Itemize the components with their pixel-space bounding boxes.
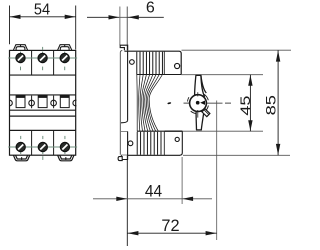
dimension 6 line right tail <box>128 16 164 18</box>
side view rail recess hook <box>121 120 128 122</box>
green tick below top screw pole3 <box>64 67 66 71</box>
side view flange hole bottom <box>128 141 133 146</box>
terminal row bottom line <box>10 74 76 76</box>
dimension 54 extension line left <box>9 6 11 45</box>
side view body bottom edge <box>121 154 180 156</box>
green centerline top screws <box>8 57 77 59</box>
terminal screw bottom pole2 <box>38 142 47 151</box>
svg-text:72: 72 <box>161 216 179 235</box>
dimension 45 line <box>249 75 251 132</box>
dimension 54 arrow left <box>10 15 21 19</box>
dimension 6 arrow left <box>109 15 120 19</box>
green tick below top screw pole1 <box>20 67 22 71</box>
faceplate band line <box>10 115 76 117</box>
side view bottom block top edge <box>164 130 182 132</box>
dimension 85 arrow bottom <box>276 144 280 155</box>
side view body back line upper <box>127 50 129 120</box>
front view bottom tab pole1 <box>14 155 30 160</box>
module separator top right <box>53 50 55 75</box>
side view ledge line lower <box>137 130 164 132</box>
side view flange left edge <box>120 51 122 155</box>
green tick below bottom screw pole3 <box>64 152 66 154</box>
dimension 6 line left tail <box>87 16 119 18</box>
green tick above top screw pole2 <box>42 52 44 54</box>
front view top mounting tab pole3 <box>58 45 72 51</box>
handle tie pin boundary1 <box>29 100 35 106</box>
side view flange hole top <box>130 60 135 65</box>
toggle top blade right edge curve <box>201 75 206 93</box>
dimension 85 top extension <box>182 49 292 51</box>
module separator bottom left <box>31 130 33 155</box>
terminal screw top pole2 <box>38 53 47 62</box>
terminal screw bottom pole3 <box>60 142 69 151</box>
toggle vertical centerline <box>197 92 199 96</box>
green tick below bottom screw pole1 <box>20 152 22 154</box>
bottom section top line <box>10 129 76 131</box>
side view rivet bottom <box>175 137 179 141</box>
dimension 44 line <box>93 198 212 200</box>
module separator top left <box>31 50 33 75</box>
toggle row bottom line <box>10 109 76 111</box>
handle tie pin right edge <box>73 100 79 106</box>
svg-text:6: 6 <box>146 0 155 17</box>
dimension 6 line middle <box>119 16 128 18</box>
green tick above bottom screw pole3 <box>64 136 66 139</box>
dimension 45 arrow top <box>248 75 252 86</box>
dimension 44 arrow right outside <box>182 197 193 201</box>
dimension 54 arrow right <box>65 15 76 19</box>
front view body outline <box>10 50 76 155</box>
side view rivet top <box>175 63 180 68</box>
dimension 54 line <box>10 16 76 18</box>
toggle handle pole2 <box>38 96 47 108</box>
toggle slot wedge <box>200 101 205 105</box>
side view ledge line upper <box>137 74 181 76</box>
toggle center dot <box>196 101 200 105</box>
toggle bottom blade <box>196 111 204 130</box>
toggle handle pole3 <box>60 96 69 108</box>
green tick above top screw pole3 <box>64 52 66 54</box>
dimension 72 line <box>127 232 216 234</box>
side view front block left edge bottom <box>163 131 165 155</box>
dimension 44 arrow left outside <box>116 197 127 201</box>
toggle rotation dashed arc <box>204 94 208 100</box>
side view bottom clip tab <box>118 157 122 161</box>
side view bottom block right edge <box>180 131 182 155</box>
side view bottom clip body <box>121 155 127 159</box>
handle tie pin left edge <box>7 100 13 106</box>
handle tie pin boundary2 <box>51 100 57 106</box>
dimension 45 bottom extension <box>182 130 263 132</box>
dimension 6 extension right <box>126 7 128 51</box>
terminal screw top pole3 <box>60 53 69 62</box>
dimension 54 extension line right <box>75 6 77 50</box>
terminal screw bottom pole1 <box>16 142 25 151</box>
dimension 85 bottom extension <box>183 154 290 156</box>
green centerline bottom screws <box>8 146 77 148</box>
side view rail notch bottom step <box>121 130 128 132</box>
terminal screw top pole1 <box>16 53 25 62</box>
green tick below bottom screw pole2 <box>42 152 44 154</box>
dimension 6 extension left <box>119 7 121 46</box>
green tick above top screw pole1 <box>20 52 22 54</box>
svg-text:85: 85 <box>264 95 279 115</box>
toggle horizontal centerline <box>184 102 191 104</box>
toggle row top line <box>10 94 76 96</box>
svg-text:54: 54 <box>34 1 51 18</box>
svg-text:44: 44 <box>145 183 162 201</box>
side view body back line lower <box>127 132 129 156</box>
side view ribs bottom <box>137 132 161 155</box>
green tick above bottom screw pole2 <box>42 136 44 139</box>
side view DIN top hook <box>120 45 128 50</box>
dimension 85 line <box>277 50 279 155</box>
dimension 44 right extension <box>181 157 183 204</box>
toggle handle pole1 <box>16 96 25 108</box>
dimension 72 right extension <box>216 101 218 241</box>
front view top mounting tab pole1 <box>13 45 27 51</box>
dimension 72 arrow left <box>128 231 139 235</box>
green center tick above pole2 <box>42 47 44 50</box>
side view curved contour lines <box>137 75 163 132</box>
side view ribs top <box>137 52 163 75</box>
dimension 6 arrow right <box>128 15 139 19</box>
dimension 72 arrow right <box>206 231 217 235</box>
back extension line down <box>126 155 128 246</box>
toggle top blade <box>195 75 205 96</box>
toggle pivot circle <box>190 95 207 112</box>
toggle slot piece lower right <box>202 109 210 117</box>
side view body top edge <box>124 51 181 74</box>
module separator bottom right <box>53 130 55 155</box>
green tick above bottom screw pole1 <box>20 136 22 139</box>
svg-text:45: 45 <box>238 96 253 116</box>
dimension 45 top extension <box>181 74 263 76</box>
side view small slot mark <box>167 102 171 105</box>
dimension 85 arrow top <box>276 50 280 61</box>
front view bottom tab pole3 <box>58 155 74 160</box>
green tick below top screw pole2 <box>42 67 44 71</box>
green tick below pole2 <box>42 156 44 160</box>
dimension 45 arrow bottom <box>248 120 252 131</box>
side view front block left edge top <box>163 51 165 74</box>
